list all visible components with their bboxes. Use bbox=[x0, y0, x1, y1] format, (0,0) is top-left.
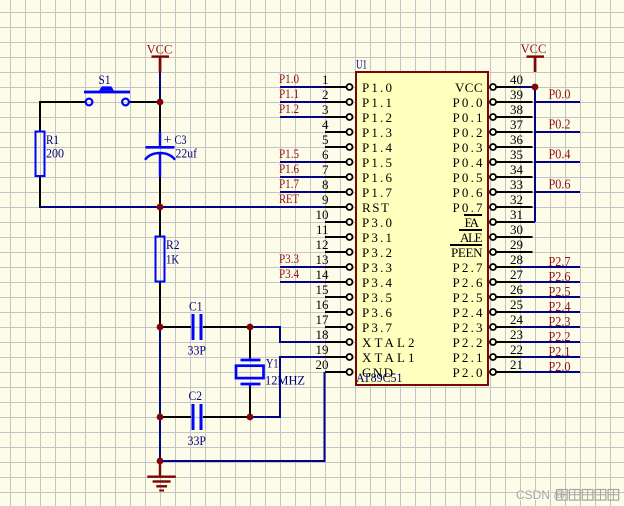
svg-text:P2.1: P2.1 bbox=[549, 344, 571, 359]
svg-text:31: 31 bbox=[510, 207, 523, 222]
svg-text:P1.1: P1.1 bbox=[362, 95, 392, 110]
svg-text:2: 2 bbox=[322, 87, 329, 102]
svg-text:RET: RET bbox=[279, 191, 299, 206]
svg-text:19: 19 bbox=[316, 342, 329, 357]
svg-text:P2.4: P2.4 bbox=[453, 305, 484, 320]
svg-text:P1.6: P1.6 bbox=[362, 170, 393, 185]
svg-text:35: 35 bbox=[510, 147, 523, 162]
svg-text:P0.0: P0.0 bbox=[453, 95, 483, 110]
svg-text:P0.6: P0.6 bbox=[549, 177, 571, 192]
svg-text:C2: C2 bbox=[189, 388, 203, 403]
svg-text:P1.0: P1.0 bbox=[362, 80, 392, 95]
svg-text:P2.5: P2.5 bbox=[453, 290, 483, 305]
svg-text:P2.0: P2.0 bbox=[453, 365, 483, 380]
svg-text:U1: U1 bbox=[356, 57, 367, 72]
svg-text:15: 15 bbox=[316, 282, 329, 297]
svg-text:37: 37 bbox=[510, 117, 524, 132]
svg-text:P0.2: P0.2 bbox=[453, 125, 483, 140]
svg-text:P1.2: P1.2 bbox=[362, 110, 392, 125]
svg-text:20: 20 bbox=[316, 357, 329, 372]
svg-text:GND: GND bbox=[362, 365, 393, 380]
svg-text:33P: 33P bbox=[188, 433, 207, 448]
svg-text:P3.3: P3.3 bbox=[279, 251, 299, 266]
svg-text:28: 28 bbox=[510, 252, 523, 267]
svg-text:1K: 1K bbox=[166, 252, 179, 267]
svg-text:25: 25 bbox=[510, 297, 523, 312]
svg-text:P1.4: P1.4 bbox=[362, 140, 393, 155]
svg-text:P2.6: P2.6 bbox=[549, 269, 571, 284]
svg-text:P2.3: P2.3 bbox=[549, 314, 571, 329]
svg-text:P1.2: P1.2 bbox=[279, 101, 299, 116]
svg-text:P0.4: P0.4 bbox=[549, 147, 571, 162]
svg-text:P0.3: P0.3 bbox=[453, 140, 483, 155]
svg-text:8: 8 bbox=[322, 177, 329, 192]
svg-text:P1.5: P1.5 bbox=[279, 146, 299, 161]
svg-text:Y1: Y1 bbox=[266, 356, 279, 371]
svg-text:P1.5: P1.5 bbox=[362, 155, 392, 170]
svg-text:21: 21 bbox=[510, 357, 523, 372]
svg-text:RST: RST bbox=[362, 200, 389, 215]
svg-text:P0.0: P0.0 bbox=[549, 87, 571, 102]
svg-text:P2.7: P2.7 bbox=[549, 254, 571, 269]
svg-text:7: 7 bbox=[322, 162, 329, 177]
svg-text:P3.3: P3.3 bbox=[362, 260, 392, 275]
svg-text:P3.7: P3.7 bbox=[362, 320, 393, 335]
svg-text:200: 200 bbox=[46, 146, 64, 161]
svg-text:14: 14 bbox=[316, 267, 330, 282]
svg-text:5: 5 bbox=[322, 132, 329, 147]
svg-text:C1: C1 bbox=[189, 298, 203, 313]
svg-text:40: 40 bbox=[510, 72, 523, 87]
svg-text:P2.2: P2.2 bbox=[549, 329, 571, 344]
svg-text:R2: R2 bbox=[166, 237, 180, 252]
svg-text:38: 38 bbox=[510, 102, 523, 117]
svg-text:39: 39 bbox=[510, 87, 523, 102]
svg-text:P1.0: P1.0 bbox=[279, 71, 299, 86]
svg-text:P1.1: P1.1 bbox=[279, 86, 299, 101]
svg-text:9: 9 bbox=[322, 192, 329, 207]
svg-text:P3.2: P3.2 bbox=[362, 245, 392, 260]
svg-text:P1.3: P1.3 bbox=[362, 125, 392, 140]
svg-text:P2.5: P2.5 bbox=[549, 284, 571, 299]
svg-text:ALE: ALE bbox=[460, 230, 483, 245]
svg-text:17: 17 bbox=[316, 312, 330, 327]
svg-text:P2.3: P2.3 bbox=[453, 320, 483, 335]
svg-text:33P: 33P bbox=[188, 342, 207, 357]
svg-text:EA: EA bbox=[465, 215, 480, 230]
svg-text:S1: S1 bbox=[99, 72, 111, 87]
svg-text:36: 36 bbox=[510, 132, 524, 147]
svg-text:P2.0: P2.0 bbox=[549, 359, 571, 374]
svg-text:P0.2: P0.2 bbox=[549, 117, 571, 132]
svg-text:12MHZ: 12MHZ bbox=[265, 372, 305, 387]
svg-text:12: 12 bbox=[316, 237, 329, 252]
svg-text:34: 34 bbox=[510, 162, 524, 177]
svg-text:P1.6: P1.6 bbox=[279, 161, 299, 176]
svg-text:11: 11 bbox=[316, 222, 329, 237]
svg-text:P2.7: P2.7 bbox=[453, 260, 484, 275]
svg-text:P2.6: P2.6 bbox=[453, 275, 484, 290]
svg-text:P2.2: P2.2 bbox=[453, 335, 483, 350]
svg-text:P0.1: P0.1 bbox=[453, 110, 483, 125]
svg-text:P0.7: P0.7 bbox=[453, 200, 484, 215]
svg-text:16: 16 bbox=[316, 297, 330, 312]
svg-text:VCC: VCC bbox=[521, 42, 547, 56]
svg-text:10: 10 bbox=[316, 207, 329, 222]
svg-text:27: 27 bbox=[510, 267, 524, 282]
svg-text:33: 33 bbox=[510, 177, 523, 192]
svg-text:22: 22 bbox=[510, 342, 523, 357]
svg-text:P0.6: P0.6 bbox=[453, 185, 484, 200]
svg-text:13: 13 bbox=[316, 252, 329, 267]
svg-text:30: 30 bbox=[510, 222, 523, 237]
svg-text:PEEN: PEEN bbox=[451, 245, 483, 260]
svg-text:+: + bbox=[164, 133, 172, 148]
svg-text:P3.0: P3.0 bbox=[362, 215, 392, 230]
svg-text:23: 23 bbox=[510, 327, 523, 342]
svg-text:1: 1 bbox=[322, 72, 329, 87]
svg-text:29: 29 bbox=[510, 237, 523, 252]
svg-text:P1.7: P1.7 bbox=[279, 176, 299, 191]
svg-text:P3.4: P3.4 bbox=[279, 266, 299, 281]
svg-text:VCC: VCC bbox=[147, 43, 173, 57]
svg-text:24: 24 bbox=[510, 312, 524, 327]
svg-text:26: 26 bbox=[510, 282, 524, 297]
svg-text:32: 32 bbox=[510, 192, 523, 207]
svg-text:P0.5: P0.5 bbox=[453, 170, 483, 185]
svg-text:3: 3 bbox=[322, 102, 329, 117]
svg-text:P0.4: P0.4 bbox=[453, 155, 484, 170]
svg-text:18: 18 bbox=[316, 327, 329, 342]
svg-text:4: 4 bbox=[322, 117, 329, 132]
svg-text:P3.6: P3.6 bbox=[362, 305, 393, 320]
svg-text:6: 6 bbox=[322, 147, 329, 162]
svg-text:P3.5: P3.5 bbox=[362, 290, 392, 305]
svg-text:P3.1: P3.1 bbox=[362, 230, 392, 245]
svg-text:VCC: VCC bbox=[455, 80, 483, 95]
svg-text:P3.4: P3.4 bbox=[362, 275, 393, 290]
svg-text:22uf: 22uf bbox=[176, 146, 198, 161]
svg-text:P1.7: P1.7 bbox=[362, 185, 393, 200]
svg-text:P2.1: P2.1 bbox=[453, 350, 483, 365]
svg-text:P2.4: P2.4 bbox=[549, 299, 571, 314]
